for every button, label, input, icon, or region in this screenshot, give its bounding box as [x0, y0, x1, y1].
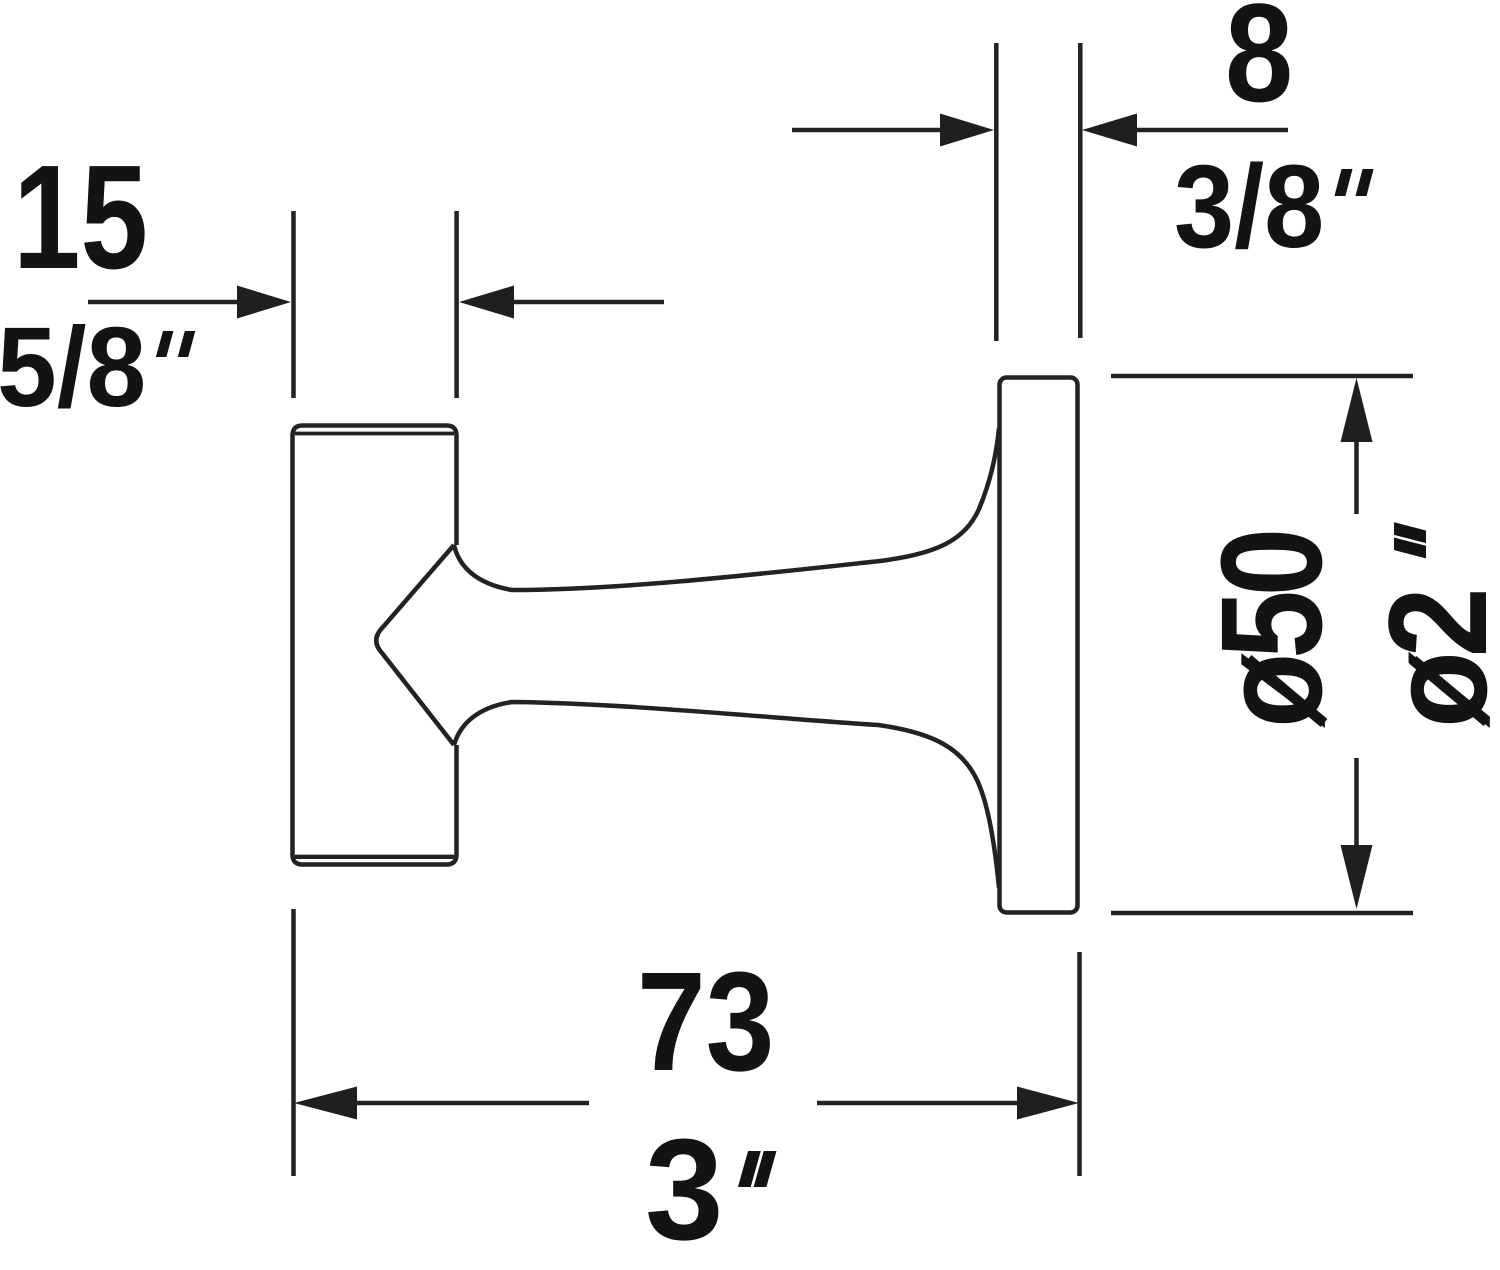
stem upper outline [454, 428, 999, 590]
dim 15: right arrow shaft [514, 300, 664, 305]
dim diameter: top shaft [1354, 440, 1359, 514]
dim 8: right arrowhead [1082, 114, 1137, 147]
dim 15: left arrow shaft [88, 300, 240, 305]
dim 73: right shaft [817, 1101, 1019, 1106]
dim 73: left shaft [357, 1101, 589, 1106]
label 3 inch [645, 1118, 800, 1262]
dim 73: right arrowhead [1017, 1087, 1079, 1120]
label 5/8 inch [0, 311, 202, 424]
extension line bottom E (x=293) [291, 909, 296, 1176]
label 73 mm [637, 951, 774, 1092]
dim diameter: bottom arrowhead [1341, 845, 1373, 909]
label diameter 2 inch (rotated) [1368, 504, 1500, 728]
extension line left A (x=293) [291, 211, 296, 398]
label 3/8 inch [1174, 148, 1382, 266]
dim diameter: bottom shaft [1354, 758, 1359, 846]
extension line mid D (x=1080) [1078, 43, 1083, 338]
label 15 mm [13, 144, 148, 292]
stem-to-face arrowhead transition [376, 545, 454, 745]
extension line right bottom (y=913) [1111, 911, 1413, 916]
label 8 mm [1225, 0, 1293, 123]
extension line right top (y=376) [1111, 374, 1413, 379]
stem lower outline [454, 702, 999, 888]
wall mounting plate [1000, 378, 1078, 913]
dim 15: left arrowhead [237, 286, 291, 319]
dim 73: left arrowhead [294, 1087, 357, 1120]
label diameter 50 mm (rotated) [1200, 534, 1344, 728]
dim 8: left arrow shaft [792, 128, 943, 133]
oslash slash overlay for rotated label ø2 inch [1413, 660, 1487, 722]
oslash slash overlay for rotated label ø50 [1248, 659, 1324, 723]
dim 8: right arrow shaft [1137, 128, 1288, 133]
T-bar top chamfer line [295, 432, 454, 436]
hook T-bar face plate (right edge open where stem attaches) [293, 426, 457, 865]
extension line left B (x=456.6) [454, 211, 459, 398]
extension line bottom F (x=1079.5) [1077, 952, 1082, 1176]
dim 8: left arrowhead [940, 114, 994, 147]
T-bar bottom chamfer line [295, 855, 454, 859]
extension line mid C (x=996) [994, 43, 999, 341]
dim diameter: top arrowhead [1341, 378, 1373, 442]
dim 15: right arrowhead [459, 286, 514, 319]
